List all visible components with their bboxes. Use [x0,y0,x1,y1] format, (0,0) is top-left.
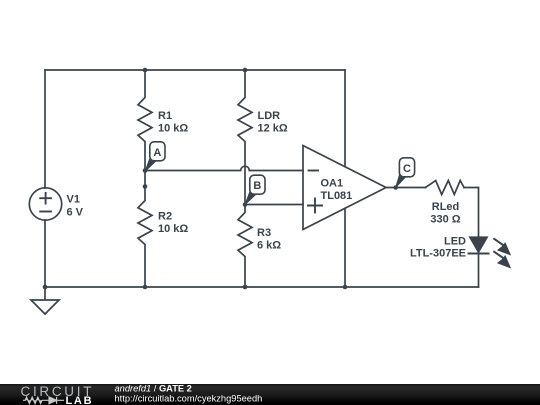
op-amp non-inverting input plus sign [308,199,322,213]
svg-text:RLed: RLed [432,201,460,213]
wire left from top rail to V1 [44,70,46,188]
resistor R2 10k [138,171,152,288]
LED LTL-307EE symbol [468,237,511,268]
wire node B to op-amp non-inverting input [245,204,303,206]
node dot C op-amp output [393,185,398,190]
resistor RLed 330 [426,181,465,195]
svg-text:10 kΩ: 10 kΩ [158,123,188,135]
wire op-amp output to RLed [386,187,426,189]
wire top rail [45,69,345,71]
svg-text:andrefd1 / GATE 2: andrefd1 / GATE 2 [115,384,192,394]
node dot B junction [243,202,248,207]
svg-text:C: C [403,163,411,175]
svg-text:LTL-307EE: LTL-307EE [410,248,466,260]
node dot top rail / LDR [243,68,248,73]
resistor LDR 12k [238,70,252,205]
svg-text:12 kΩ: 12 kΩ [258,123,288,135]
wire V1 to ground node [44,220,46,287]
voltage source V1 6V [29,188,61,220]
CircuitLab logo [21,384,95,405]
svg-text:330 Ω: 330 Ω [430,214,460,226]
svg-text:LED: LED [444,236,466,248]
svg-text:R1: R1 [158,110,172,122]
node dot bottom rail / R2 [143,285,148,290]
node dot ground junction [43,285,48,290]
node dot below A [143,184,148,189]
svg-text:LDR: LDR [258,110,281,122]
resistor R3 6k [238,205,252,288]
svg-text:R2: R2 [158,211,172,223]
node dot bottom rail / R3 [243,285,248,290]
svg-text:R3: R3 [257,227,271,239]
wire RLed to LED branch corner [464,188,479,238]
svg-text:http://circuitlab.com/cyekzhg9: http://circuitlab.com/cyekzhg95eedh [115,394,263,404]
node dot top rail / R1 [143,68,148,73]
node A flag [145,142,165,171]
node B flag [245,175,265,204]
wire LED cathode to bottom rail [478,254,480,288]
svg-text:6 V: 6 V [67,207,84,219]
ground symbol [31,287,59,314]
svg-text:6 kΩ: 6 kΩ [257,240,281,252]
op-amp OA1 TL081 triangle [303,146,386,230]
LED light arrow 2 [493,251,503,258]
wire op-amp negative supply to bottom rail [344,208,346,287]
svg-text:OA1: OA1 [321,177,344,189]
node dot bottom rail / supply [343,285,348,290]
svg-text:LAB: LAB [66,395,94,405]
svg-text:TL081: TL081 [321,190,353,202]
svg-text:V1: V1 [67,194,80,206]
wire bottom rail [45,286,479,288]
svg-text:10 kΩ: 10 kΩ [158,223,188,235]
svg-text:B: B [253,180,261,192]
svg-text:A: A [153,147,161,159]
node C flag [396,158,415,188]
LED light arrow 1 [493,238,503,245]
wire node A to op-amp inverting input (hops over LDR wire) [145,166,303,170]
node dot A junction [143,168,148,173]
resistor R1 10k [138,70,152,171]
op-amp inverting input minus sign [309,170,319,172]
wire op-amp positive supply from top rail [344,70,346,167]
